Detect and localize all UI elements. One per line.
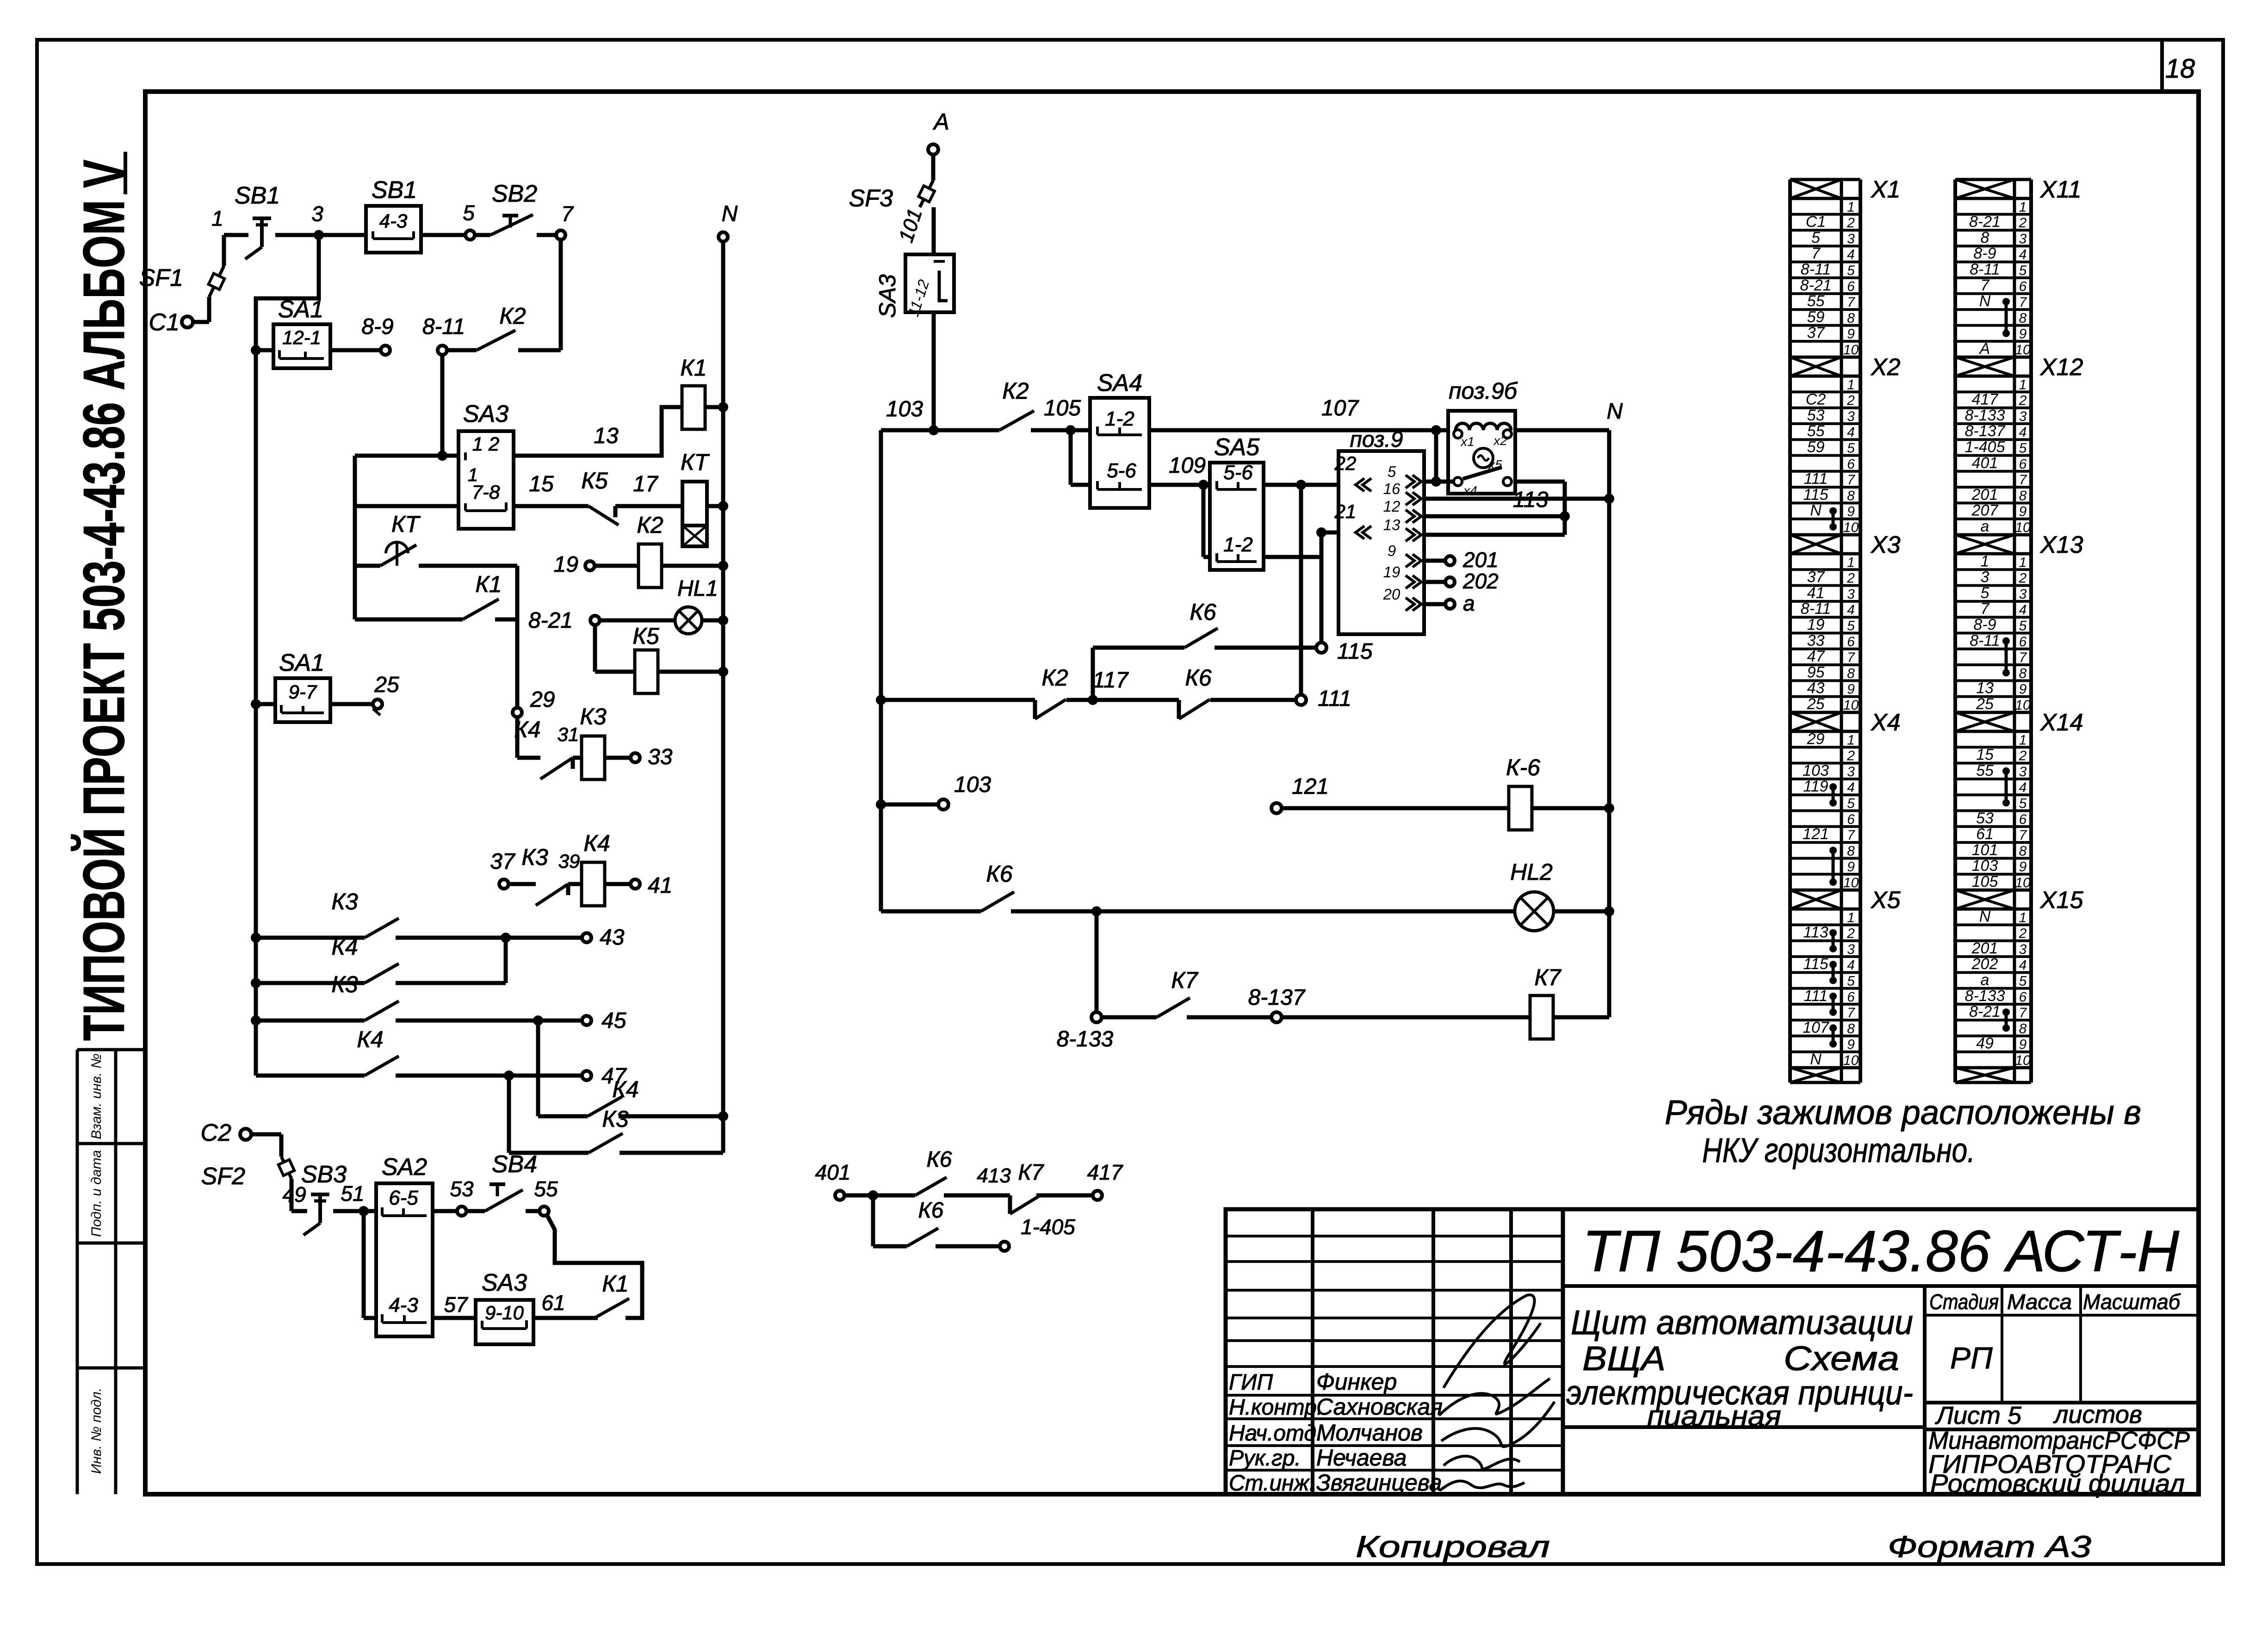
svg-text:X5: X5 — [1871, 887, 1901, 914]
svg-text:3: 3 — [2019, 409, 2027, 424]
svg-text:59: 59 — [1807, 308, 1825, 326]
svg-text:6-5: 6-5 — [389, 1187, 418, 1209]
svg-text:SB3: SB3 — [301, 1161, 347, 1188]
svg-text:Рук.гр.: Рук.гр. — [1229, 1446, 1301, 1471]
svg-text:45: 45 — [601, 1008, 626, 1033]
svg-text:9: 9 — [2019, 860, 2027, 875]
svg-text:4: 4 — [2019, 958, 2027, 973]
svg-text:К4: К4 — [612, 1076, 638, 1102]
svg-text:х4: х4 — [1462, 483, 1477, 498]
svg-text:10: 10 — [2015, 520, 2031, 535]
svg-text:N: N — [1979, 908, 1991, 925]
svg-text:61: 61 — [541, 1291, 565, 1315]
svg-text:8: 8 — [1847, 843, 1855, 859]
svg-text:К6: К6 — [927, 1147, 952, 1172]
svg-text:5: 5 — [1847, 974, 1855, 989]
svg-text:7: 7 — [1981, 277, 1990, 294]
svg-text:7: 7 — [1847, 650, 1855, 665]
svg-text:Сахновская: Сахновская — [1316, 1394, 1443, 1420]
svg-text:Масштаб: Масштаб — [2083, 1290, 2181, 1314]
svg-text:109: 109 — [1169, 453, 1206, 478]
svg-text:8-11: 8-11 — [1970, 632, 2000, 649]
svg-text:101: 101 — [895, 206, 927, 245]
svg-text:16: 16 — [1383, 480, 1400, 497]
svg-text:103: 103 — [1803, 762, 1829, 779]
svg-text:9: 9 — [1847, 682, 1855, 697]
svg-text:12-1: 12-1 — [282, 327, 321, 348]
svg-text:7: 7 — [1847, 472, 1855, 488]
svg-text:4: 4 — [2019, 602, 2027, 618]
svg-text:47: 47 — [1807, 648, 1825, 665]
svg-text:401: 401 — [815, 1160, 851, 1184]
svg-text:К4: К4 — [583, 830, 610, 856]
svg-text:5-6: 5-6 — [1223, 461, 1253, 484]
svg-text:9: 9 — [2019, 682, 2027, 697]
svg-text:2: 2 — [1847, 393, 1855, 408]
svg-text:пиальная: пиальная — [1647, 1400, 1781, 1432]
svg-text:121: 121 — [1803, 825, 1829, 843]
svg-text:4: 4 — [2019, 425, 2027, 440]
svg-text:5: 5 — [2019, 441, 2027, 456]
svg-text:НКУ горизонтально.: НКУ горизонтально. — [1702, 1131, 1975, 1169]
svg-text:SA5: SA5 — [1214, 434, 1260, 461]
svg-text:121: 121 — [1292, 774, 1329, 799]
svg-text:3: 3 — [1847, 942, 1855, 957]
svg-text:10: 10 — [1843, 342, 1859, 358]
svg-text:10: 10 — [2015, 698, 2031, 713]
svg-text:3: 3 — [2019, 587, 2027, 602]
svg-text:К1: К1 — [475, 571, 502, 597]
svg-text:53: 53 — [1976, 810, 1994, 827]
svg-text:37: 37 — [1807, 324, 1825, 342]
svg-text:6: 6 — [1847, 634, 1855, 649]
svg-text:9: 9 — [2019, 504, 2027, 520]
svg-text:Молчанов: Молчанов — [1316, 1420, 1423, 1446]
svg-text:3: 3 — [2019, 942, 2027, 957]
svg-text:1: 1 — [2019, 199, 2027, 215]
svg-text:А: А — [932, 109, 949, 135]
svg-text:Нач.отд.: Нач.отд. — [1229, 1421, 1322, 1446]
svg-text:8: 8 — [2019, 666, 2027, 681]
svg-text:7: 7 — [2019, 650, 2027, 665]
svg-text:9-7: 9-7 — [289, 681, 317, 703]
svg-text:1 2: 1 2 — [472, 433, 499, 455]
svg-text:7-8: 7-8 — [472, 481, 500, 503]
svg-text:21: 21 — [1334, 501, 1357, 522]
svg-text:25: 25 — [374, 673, 399, 697]
svg-text:57: 57 — [444, 1293, 468, 1317]
svg-text:37: 37 — [490, 849, 516, 874]
svg-text:К7: К7 — [1534, 965, 1562, 990]
svg-text:а: а — [1463, 591, 1475, 615]
svg-text:SB2: SB2 — [492, 180, 537, 207]
svg-text:7: 7 — [1847, 1005, 1855, 1021]
svg-text:9: 9 — [1388, 542, 1396, 559]
svg-text:7: 7 — [1981, 600, 1990, 618]
svg-text:SB4: SB4 — [492, 1151, 537, 1178]
svg-text:3: 3 — [2019, 764, 2027, 779]
svg-text:113: 113 — [1803, 924, 1828, 941]
svg-text:SA3: SA3 — [874, 274, 900, 318]
svg-text:51: 51 — [341, 1181, 364, 1206]
svg-text:1-405: 1-405 — [1965, 439, 2005, 456]
svg-text:5: 5 — [2019, 263, 2027, 278]
svg-text:3: 3 — [2019, 231, 2027, 247]
svg-text:55: 55 — [1807, 292, 1825, 310]
svg-text:5: 5 — [2019, 618, 2027, 634]
svg-text:22: 22 — [1334, 452, 1357, 474]
svg-text:3: 3 — [311, 202, 323, 226]
svg-text:95: 95 — [1807, 663, 1825, 681]
svg-text:2: 2 — [1847, 571, 1855, 586]
svg-text:7: 7 — [561, 202, 574, 226]
svg-text:Финкер: Финкер — [1316, 1369, 1397, 1395]
svg-text:К3: К3 — [331, 889, 358, 915]
svg-text:SF2: SF2 — [201, 1163, 245, 1190]
svg-text:С1: С1 — [1806, 213, 1826, 231]
svg-text:8-21: 8-21 — [1969, 213, 2001, 231]
svg-text:РП: РП — [1950, 1341, 1993, 1375]
svg-text:К6: К6 — [1190, 599, 1216, 625]
svg-text:8: 8 — [1847, 666, 1855, 681]
svg-text:53: 53 — [450, 1177, 474, 1201]
svg-text:5: 5 — [1981, 584, 1989, 602]
svg-text:SF3: SF3 — [849, 185, 893, 212]
svg-text:1: 1 — [1847, 732, 1855, 748]
svg-text:8-137: 8-137 — [1248, 985, 1306, 1010]
svg-text:8: 8 — [2019, 488, 2027, 503]
svg-text:SB1: SB1 — [372, 177, 417, 204]
svg-text:37: 37 — [1807, 569, 1825, 586]
svg-text:6: 6 — [1847, 279, 1855, 294]
svg-text:9: 9 — [2019, 1037, 2027, 1052]
svg-text:25: 25 — [1807, 695, 1825, 713]
svg-text:17: 17 — [633, 472, 659, 496]
svg-text:12: 12 — [1383, 498, 1400, 515]
svg-text:К2: К2 — [499, 303, 526, 329]
svg-text:13: 13 — [1976, 680, 1994, 697]
svg-text:201: 201 — [1462, 548, 1499, 572]
svg-text:1: 1 — [1847, 910, 1855, 925]
svg-text:61: 61 — [1976, 825, 1994, 843]
svg-text:5: 5 — [1847, 263, 1855, 278]
svg-text:6: 6 — [2019, 634, 2027, 649]
svg-text:КТ: КТ — [391, 511, 421, 537]
svg-text:6: 6 — [2019, 990, 2027, 1005]
svg-text:X12: X12 — [2040, 354, 2083, 381]
svg-text:20: 20 — [1383, 586, 1400, 603]
svg-text:X14: X14 — [2040, 709, 2083, 736]
svg-text:5: 5 — [463, 201, 475, 225]
svg-text:202: 202 — [1971, 955, 1998, 973]
svg-text:2: 2 — [2019, 571, 2027, 586]
svg-text:К7: К7 — [1171, 967, 1198, 993]
svg-text:10: 10 — [2015, 342, 2031, 358]
svg-text:9: 9 — [1847, 327, 1855, 342]
svg-text:53: 53 — [1807, 407, 1825, 424]
svg-text:N: N — [1810, 502, 1822, 520]
svg-text:19: 19 — [1383, 563, 1400, 581]
svg-text:3: 3 — [1847, 764, 1855, 779]
svg-text:К5: К5 — [581, 468, 607, 494]
svg-text:листов: листов — [2053, 1401, 2142, 1429]
svg-text:Взам. инв. №: Взам. инв. № — [89, 1053, 104, 1139]
svg-text:9: 9 — [1847, 860, 1855, 875]
svg-text:X13: X13 — [2040, 532, 2083, 558]
svg-text:SA3: SA3 — [463, 401, 508, 427]
svg-text:ТИПОВОЙ ПРОЕКТ 503-4-43.86 АЛЬ: ТИПОВОЙ ПРОЕКТ 503-4-43.86 АЛЬБОМ V — [71, 160, 136, 1041]
svg-text:7: 7 — [2019, 828, 2027, 843]
svg-text:6: 6 — [1847, 990, 1855, 1005]
svg-text:8: 8 — [1981, 229, 1989, 247]
svg-text:111: 111 — [1804, 987, 1828, 1005]
svg-text:1: 1 — [2019, 732, 2027, 748]
svg-text:X11: X11 — [2040, 176, 2082, 203]
svg-text:X2: X2 — [1871, 354, 1901, 381]
svg-text:8-133: 8-133 — [1057, 1027, 1114, 1051]
svg-text:Подп. и дата: Подп. и дата — [89, 1150, 104, 1237]
svg-text:417: 417 — [1087, 1160, 1123, 1184]
svg-text:55: 55 — [1976, 762, 1994, 779]
svg-text:SF1: SF1 — [139, 265, 183, 291]
svg-text:1: 1 — [1981, 552, 1989, 570]
svg-text:15: 15 — [529, 472, 554, 496]
svg-text:117: 117 — [1093, 668, 1129, 693]
svg-text:9: 9 — [1847, 504, 1855, 520]
svg-text:1: 1 — [2019, 555, 2027, 570]
svg-text:К4: К4 — [331, 934, 358, 960]
svg-text:К4: К4 — [357, 1027, 383, 1052]
svg-text:С2: С2 — [201, 1119, 232, 1146]
svg-text:4: 4 — [1847, 602, 1855, 618]
svg-text:1: 1 — [211, 206, 223, 230]
svg-text:SA4: SA4 — [1097, 370, 1142, 396]
svg-text:Щит автоматизации: Щит автоматизации — [1571, 1303, 1913, 1342]
svg-text:Копировал: Копировал — [1356, 1529, 1550, 1564]
svg-text:SA3: SA3 — [482, 1269, 527, 1296]
svg-text:413: 413 — [977, 1164, 1011, 1187]
svg-text:3: 3 — [1847, 587, 1855, 602]
svg-text:К2: К2 — [1041, 665, 1068, 691]
svg-text:8-21: 8-21 — [1969, 1003, 2001, 1021]
svg-text:10: 10 — [1843, 698, 1859, 713]
svg-text:119: 119 — [1803, 778, 1828, 795]
svg-text:115: 115 — [1337, 639, 1373, 664]
svg-text:8-11: 8-11 — [1801, 600, 1831, 618]
svg-text:31: 31 — [558, 724, 579, 745]
svg-text:X3: X3 — [1871, 532, 1901, 558]
svg-text:7: 7 — [2019, 472, 2027, 488]
svg-text:8: 8 — [2019, 843, 2027, 859]
svg-text:3: 3 — [1847, 231, 1855, 247]
svg-text:9: 9 — [1847, 1037, 1855, 1052]
svg-text:201: 201 — [1971, 940, 1998, 957]
svg-text:5: 5 — [1811, 229, 1820, 247]
svg-text:41: 41 — [1807, 584, 1825, 602]
svg-text:К2: К2 — [637, 512, 663, 538]
svg-text:С1: С1 — [149, 309, 180, 336]
svg-text:55: 55 — [534, 1177, 558, 1201]
svg-text:Ст.инж.: Ст.инж. — [1229, 1471, 1315, 1496]
svg-text:ВЩА: ВЩА — [1582, 1339, 1666, 1378]
svg-text:8-11: 8-11 — [1970, 261, 2000, 278]
svg-text:10: 10 — [2015, 1053, 2031, 1068]
svg-text:К1: К1 — [602, 1271, 628, 1297]
svg-text:1-2: 1-2 — [1223, 533, 1253, 556]
svg-text:401: 401 — [1972, 454, 1998, 472]
svg-text:2: 2 — [1847, 216, 1855, 231]
svg-text:5: 5 — [2019, 974, 2027, 989]
svg-text:2: 2 — [2019, 393, 2027, 408]
svg-text:N: N — [1607, 399, 1623, 424]
svg-text:6: 6 — [2019, 457, 2027, 472]
svg-text:Масса: Масса — [2007, 1290, 2072, 1314]
svg-text:18: 18 — [2165, 54, 2195, 84]
svg-text:Формат А3: Формат А3 — [1888, 1529, 2091, 1564]
svg-text:39: 39 — [558, 850, 580, 872]
svg-text:7: 7 — [1847, 828, 1855, 843]
svg-text:SA1: SA1 — [279, 649, 324, 676]
svg-text:3: 3 — [1847, 409, 1855, 424]
svg-text:8: 8 — [1847, 1021, 1855, 1036]
svg-text:X1: X1 — [1871, 176, 1901, 203]
svg-text:К6: К6 — [986, 861, 1012, 887]
svg-text:N: N — [1979, 292, 1991, 310]
svg-text:4: 4 — [1847, 425, 1855, 440]
svg-text:19: 19 — [554, 552, 578, 577]
svg-text:а: а — [1981, 518, 1989, 535]
svg-text:С2: С2 — [1806, 391, 1826, 408]
svg-text:5: 5 — [2019, 796, 2027, 811]
svg-text:К6: К6 — [1185, 665, 1211, 691]
svg-text:1: 1 — [2019, 377, 2027, 392]
svg-text:25: 25 — [1976, 695, 1994, 713]
svg-text:1-405: 1-405 — [1021, 1215, 1075, 1239]
svg-text:КТ: КТ — [681, 449, 710, 475]
svg-text:59: 59 — [1807, 439, 1825, 456]
svg-text:ГИП: ГИП — [1229, 1370, 1273, 1395]
svg-text:2: 2 — [1847, 748, 1855, 764]
svg-text:HL2: HL2 — [1510, 859, 1553, 885]
svg-text:К3: К3 — [602, 1106, 628, 1132]
svg-text:115: 115 — [1803, 955, 1828, 973]
svg-text:29: 29 — [530, 687, 555, 712]
svg-text:113: 113 — [1513, 488, 1549, 512]
svg-text:8: 8 — [2019, 1021, 2027, 1036]
svg-text:К2: К2 — [1002, 378, 1029, 404]
svg-text:2: 2 — [1847, 926, 1855, 941]
svg-text:49: 49 — [1976, 1035, 1994, 1052]
svg-text:4: 4 — [1847, 247, 1855, 262]
svg-text:8: 8 — [1847, 310, 1855, 326]
svg-text:х2: х2 — [1493, 433, 1507, 448]
svg-text:10: 10 — [1843, 1053, 1859, 1068]
svg-text:1: 1 — [1847, 555, 1855, 570]
svg-text:X15: X15 — [2040, 887, 2084, 914]
svg-text:207: 207 — [1971, 502, 1999, 520]
svg-text:105: 105 — [1972, 873, 1998, 891]
svg-text:N: N — [722, 202, 738, 226]
svg-text:4-3: 4-3 — [389, 1294, 418, 1317]
svg-text:К-6: К-6 — [1506, 755, 1540, 780]
svg-text:107: 107 — [1803, 1019, 1829, 1036]
svg-text:SA2: SA2 — [382, 1154, 427, 1181]
svg-text:13: 13 — [594, 424, 619, 448]
svg-text:4: 4 — [2019, 780, 2027, 795]
svg-text:10: 10 — [1843, 875, 1859, 891]
svg-text:105: 105 — [1044, 396, 1081, 421]
svg-text:8-11: 8-11 — [422, 315, 465, 339]
svg-text:N: N — [1810, 1051, 1822, 1068]
svg-text:6: 6 — [2019, 279, 2027, 294]
svg-text:К3: К3 — [521, 844, 548, 870]
svg-text:ТП 503-4-43.86 АСТ-Н: ТП 503-4-43.86 АСТ-Н — [1582, 1218, 2180, 1284]
svg-text:29: 29 — [1807, 730, 1825, 748]
svg-text:1: 1 — [1847, 377, 1855, 392]
svg-text:8-9: 8-9 — [1973, 245, 1996, 262]
svg-text:101: 101 — [1972, 841, 1998, 859]
svg-text:поз.9: поз.9 — [1350, 427, 1403, 452]
svg-text:SB1: SB1 — [235, 182, 280, 209]
svg-text:43: 43 — [1807, 680, 1825, 697]
svg-text:5-6: 5-6 — [1107, 459, 1136, 482]
svg-text:Схема: Схема — [1784, 1339, 1899, 1378]
svg-text:7: 7 — [2019, 295, 2027, 310]
svg-text:202: 202 — [1462, 569, 1499, 593]
svg-text:1: 1 — [2019, 910, 2027, 925]
svg-text:5: 5 — [1388, 463, 1396, 480]
svg-text:7: 7 — [1811, 245, 1821, 262]
svg-text:2: 2 — [2019, 926, 2027, 941]
svg-text:43: 43 — [600, 925, 625, 950]
svg-text:К7: К7 — [1018, 1160, 1045, 1185]
svg-text:5: 5 — [1847, 441, 1855, 456]
svg-text:201: 201 — [1971, 486, 1998, 503]
svg-text:41: 41 — [648, 873, 672, 898]
svg-text:5: 5 — [1847, 618, 1855, 634]
svg-text:X4: X4 — [1871, 709, 1901, 736]
svg-text:4: 4 — [2019, 247, 2027, 262]
svg-text:19: 19 — [1807, 616, 1825, 634]
svg-text:4-3: 4-3 — [379, 210, 408, 232]
svg-text:6: 6 — [1847, 457, 1855, 472]
svg-text:7: 7 — [2019, 1005, 2027, 1021]
svg-text:8-133: 8-133 — [1965, 407, 2005, 424]
svg-text:33: 33 — [1807, 632, 1825, 649]
svg-text:8-9: 8-9 — [361, 315, 393, 339]
svg-text:Нечаева: Нечаева — [1316, 1445, 1407, 1471]
svg-text:1-2: 1-2 — [1105, 408, 1134, 430]
svg-text:К6: К6 — [918, 1198, 944, 1223]
svg-text:55: 55 — [1807, 422, 1825, 440]
svg-text:К3: К3 — [580, 704, 606, 730]
svg-text:111: 111 — [1804, 470, 1828, 488]
svg-text:HL1: HL1 — [677, 576, 718, 601]
svg-text:13: 13 — [1383, 516, 1400, 533]
svg-text:115: 115 — [1803, 486, 1828, 503]
svg-text:поз.9б: поз.9б — [1449, 378, 1518, 404]
svg-text:8-21: 8-21 — [1800, 277, 1831, 294]
svg-text:33: 33 — [648, 745, 673, 769]
svg-text:4: 4 — [1847, 780, 1855, 795]
svg-text:8-137: 8-137 — [1965, 422, 2006, 440]
svg-text:2: 2 — [2019, 748, 2027, 764]
svg-text:8: 8 — [1847, 488, 1855, 503]
svg-text:6: 6 — [1847, 812, 1855, 827]
svg-text:107: 107 — [1321, 396, 1359, 421]
svg-text:Ряды зажимов расположены: Ряды зажимов расположены в — [1665, 1093, 2141, 1132]
svg-text:2: 2 — [2019, 216, 2027, 231]
